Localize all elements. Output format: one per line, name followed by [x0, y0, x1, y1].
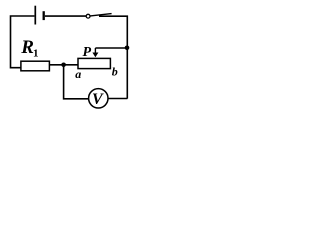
node A junction dot [61, 63, 66, 68]
potentiometer P body [78, 58, 110, 68]
wire top-left + left side into resistor [11, 16, 35, 68]
svg-text:V: V [92, 91, 104, 108]
wiper wire to right side [95, 47, 127, 49]
switch pivot circle [86, 14, 90, 18]
svg-text:a: a [75, 67, 81, 81]
battery long plate (+) [34, 6, 36, 25]
voltmeter V [89, 89, 108, 108]
resistor R1 [21, 61, 50, 71]
wire resistor to node A to potentiometer [50, 64, 78, 66]
wiper arrow shaft [94, 48, 96, 53]
svg-text:R: R [20, 37, 34, 58]
svg-text:b: b [112, 65, 118, 79]
switch blade [90, 14, 111, 16]
wire voltmeter to bottom-right corner [108, 98, 127, 100]
wire node A down and to voltmeter [64, 65, 89, 99]
node B junction dot on right wire [125, 46, 130, 51]
svg-text:P: P [83, 45, 92, 60]
svg-text:1: 1 [33, 48, 39, 60]
battery short plate (-) [43, 11, 45, 20]
wiper arrowhead [92, 53, 98, 58]
wire switch to top-right corner and right side down [99, 16, 127, 98]
wire battery to switch [45, 15, 86, 17]
